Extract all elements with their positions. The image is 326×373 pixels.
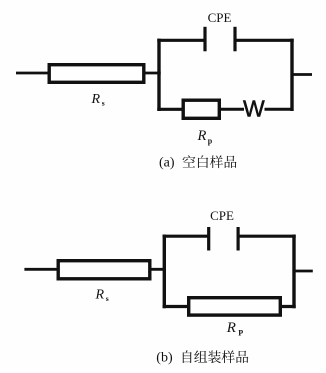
resistor Rp (a)	[183, 100, 219, 118]
wire W to node (a)	[265, 108, 293, 111]
resistor Rs (b)	[58, 261, 150, 279]
wire left vertical bar (b)	[163, 236, 166, 306]
caption (b) 自组装样品	[183, 350, 249, 363]
svg-text:R: R	[91, 92, 101, 107]
wire right stub (b)	[294, 270, 313, 273]
wire Rs to node (b)	[149, 268, 166, 271]
wire bottom branch left (a)	[157, 108, 184, 111]
wire right stub (a)	[292, 73, 312, 76]
capacitor CPE right plate (b)	[237, 227, 240, 251]
svg-text:R: R	[95, 288, 105, 303]
caption (a) 空白样品	[183, 155, 237, 168]
svg-text:CPE: CPE	[208, 10, 232, 25]
svg-text:p: p	[208, 137, 213, 146]
resistor Rs (a)	[49, 65, 144, 83]
wire left lead (b)	[24, 268, 59, 271]
wire top branch right (b)	[239, 235, 296, 238]
capacitor CPE left plate (a)	[203, 27, 206, 52]
wire right vertical bar (b)	[292, 236, 295, 306]
wire left vertical bar (a)	[157, 40, 160, 109]
capacitor CPE left plate (b)	[207, 227, 210, 251]
capacitor CPE right plate (a)	[233, 27, 236, 52]
wire Rp to W (a)	[219, 108, 244, 111]
svg-text:R: R	[226, 320, 236, 336]
svg-text:P: P	[238, 329, 243, 338]
wire left lead (a)	[16, 72, 50, 75]
svg-text:(a): (a)	[159, 155, 175, 170]
wire bottom branch left (b)	[163, 305, 190, 308]
wire right vertical bar (a)	[290, 40, 293, 109]
svg-text:s: s	[106, 294, 109, 303]
resistor Rp (b)	[189, 298, 281, 315]
wire top branch left (a)	[157, 39, 204, 42]
svg-text:s: s	[102, 99, 105, 108]
wire Rp to node (b)	[279, 305, 296, 308]
svg-text:R: R	[197, 128, 207, 144]
wire Rs to node (a)	[143, 72, 161, 75]
wire top branch right (a)	[236, 39, 294, 42]
wire top branch left (b)	[163, 235, 209, 238]
svg-text:W: W	[243, 95, 265, 121]
svg-text:(b): (b)	[156, 350, 173, 365]
svg-text:CPE: CPE	[210, 208, 234, 223]
